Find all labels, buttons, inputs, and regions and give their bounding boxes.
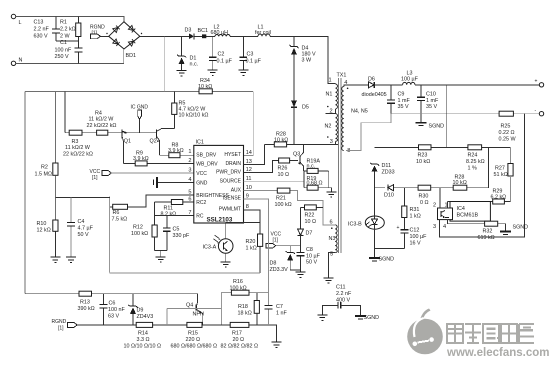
wire IC4 pin2 [439,188,441,208]
svg-text:IC3-B: IC3-B [348,222,362,228]
resistor R2 [35,91,59,177]
svg-text:100 kΩ: 100 kΩ [131,231,148,237]
resistor R31 [402,188,421,230]
svg-text:R1: R1 [60,20,67,26]
svg-text:5: 5 [188,189,191,195]
svg-text:22 kΩ/22 kΩ: 22 kΩ/22 kΩ [63,152,93,158]
svg-text:C3: C3 [247,52,254,58]
svg-text:C11: C11 [336,285,346,291]
svg-text:C12: C12 [410,228,420,234]
wire HYSET bus (y=91.3) [25,90,253,92]
resistor R5 [172,91,209,128]
svg-text:35 V: 35 V [426,104,437,110]
wire output sense drop [446,85,448,148]
svg-text:R12: R12 [133,225,143,231]
wire N3 pin5 to ground [329,252,336,277]
diode D6 [362,76,387,98]
svg-text:10 kΩ: 10 kΩ [416,159,430,165]
svg-text:6: 6 [188,197,191,203]
resistor R15 [171,322,218,349]
optocoupler IC4 BCM61B [433,202,490,231]
svg-text:4.7 µF: 4.7 µF [78,226,94,232]
transformer primary winding N2 [325,114,338,145]
resistor R9 [123,151,194,166]
svg-text:2: 2 [330,109,333,115]
wire pin9 ISENSE drop [244,199,269,293]
svg-text:16 V: 16 V [410,240,421,246]
svg-text:0.1 µF: 0.1 µF [217,59,233,65]
inductor L2 [211,25,231,37]
svg-text:R32: R32 [483,229,493,235]
svg-text:TX1: TX1 [337,73,347,79]
svg-text:N3: N3 [329,236,336,242]
capacitor C1 [55,40,83,63]
transistor Q4 [186,303,204,325]
capacitor C10 [417,85,439,123]
wire rectified rail [140,36,336,83]
svg-text:C7: C7 [276,304,283,310]
svg-text:R30: R30 [419,194,429,200]
resistor R12 [131,215,157,250]
node output terminal plus [535,79,544,88]
capacitor C13 [34,17,61,42]
ground under R12/C5 [156,257,166,262]
resistor R10 [37,198,59,257]
wire drain bus (y=144.4) [265,143,338,145]
zener D11 [370,163,395,188]
svg-text:C13: C13 [34,20,44,26]
resistor R23 [416,145,431,165]
resistor R18 [238,293,260,325]
svg-text:[1]: [1] [58,325,64,331]
wire pin4 to D6 [344,85,369,87]
svg-text:AUX: AUX [231,187,242,193]
resistor R11 8.2k [155,200,194,218]
resistor R20 1k [246,234,263,273]
optocoupler IC3-A phototransistor [203,235,234,253]
svg-text:100 kΩ: 100 kΩ [230,285,247,291]
svg-text:10 Ω: 10 Ω [278,172,290,178]
svg-text:51 kΩ: 51 kΩ [494,172,508,178]
inductor L1 [255,25,271,37]
svg-text:D9: D9 [137,308,144,314]
svg-text:D5: D5 [302,105,309,111]
svg-text:1 mF: 1 mF [398,98,411,104]
terminal IC GND [131,105,149,133]
terminal RGND [1] bottom [52,319,78,331]
node L input terminal [11,14,21,26]
wire C12/IC3-B bottom join [375,249,405,258]
wire feedback top line (y=147.3) [375,146,511,148]
svg-text:R24: R24 [468,153,478,159]
transformer TX1 core [337,73,347,254]
resistor R19A n.c. [304,159,329,188]
wire base line [65,132,157,134]
diode D10 [384,185,394,199]
transformer tap pin 2 [326,106,336,115]
wire R3R4 branch vertical [64,91,66,132]
capacitor C6 [99,294,125,325]
wire feedback mid line (y=187.7) [375,147,489,187]
svg-text:RC2: RC2 [196,200,206,206]
svg-text:0.25 W: 0.25 W [499,136,517,142]
wire pin8 PWMLMT [244,210,261,234]
svg-text:R29: R29 [493,188,503,194]
svg-text:D11: D11 [382,163,392,169]
svg-text:n.c.: n.c. [190,62,199,68]
resistor R22 [301,205,324,225]
svg-text:N4, N5: N4, N5 [351,109,368,115]
svg-text:3: 3 [188,168,191,174]
svg-text:+: + [535,79,538,85]
svg-text:D10: D10 [384,193,394,199]
svg-text:SOURCE: SOURCE [220,179,242,185]
svg-text:NPN: NPN [193,311,204,317]
svg-text:R21: R21 [276,196,286,202]
svg-text:R6: R6 [113,210,120,216]
svg-text:50 V: 50 V [78,232,89,238]
terminal VCC [1] left [90,169,194,181]
zener D4 [289,36,316,100]
svg-text:RGND: RGND [52,319,67,325]
ferrite bead BC1 [198,28,209,38]
ground SGND under R32 [500,225,528,235]
ground under N3 [324,278,334,283]
zener D9 [128,294,153,325]
svg-text:R27: R27 [495,166,505,172]
wire pin8 stair [346,114,391,151]
wire node drop to bottom rail [109,196,111,273]
svg-text:ZD4V3: ZD4V3 [137,314,154,320]
svg-text:D8: D8 [270,261,277,267]
wire RC node [155,202,194,215]
svg-text:+: + [397,225,400,231]
bridge rectifier BD1 [106,22,142,59]
svg-text:C5: C5 [173,227,180,233]
svg-text:R14: R14 [138,331,148,337]
resistor R16 [230,279,250,295]
svg-text:63 V: 63 V [108,314,119,320]
transistor Q2 [150,129,175,156]
transistor Q3 [293,144,304,171]
wire dim-detect top line (y=293.7) [25,294,198,304]
svg-text:3.3 Ω: 3.3 Ω [137,337,150,343]
svg-text:4: 4 [188,177,191,183]
capacitor C8 [297,246,321,272]
svg-text:PWR_DRV: PWR_DRV [216,169,242,175]
svg-text:SB_DRV: SB_DRV [196,153,217,159]
svg-text:3 W: 3 W [302,58,312,64]
svg-text:IC3-A: IC3-A [203,245,217,251]
svg-text:N: N [19,58,23,64]
resistor R25 [499,111,517,142]
wire R12/C5 bottom [155,251,167,257]
svg-text:1: 1 [188,149,191,155]
svg-text:SGND: SGND [379,257,395,263]
wire R10/C4 node [55,197,109,199]
wire C13/R1 bottom node [56,40,78,42]
capacitor C7 [264,293,287,325]
resistor R6 [110,195,194,223]
capacitor C4 [67,198,94,257]
resistor R3 [63,130,93,157]
resistor R8 [160,143,194,158]
resistor R19 [304,171,331,190]
svg-text:619 kΩ: 619 kΩ [478,235,495,241]
svg-text:IC4: IC4 [457,206,465,212]
resistor R32 [478,221,498,241]
svg-text:R25: R25 [501,124,511,130]
svg-text:1 mF: 1 mF [426,98,439,104]
svg-text:100 nF: 100 nF [55,48,72,54]
wire R16 line [221,292,268,294]
svg-text:10 kΩ/10 kΩ: 10 kΩ/10 kΩ [179,113,209,119]
ground SGND under IC3-B [369,257,394,263]
wire left outer vertical [24,91,26,293]
svg-text:1 kΩ: 1 kΩ [246,246,257,252]
svg-text:100 µF: 100 µF [401,77,419,83]
svg-text:R18: R18 [238,304,248,310]
svg-text:R31: R31 [410,207,420,213]
resistor R24 [466,145,485,172]
ground symbol pin4 GND [154,177,194,188]
svg-text:82 Ω/82 Ω/82 Ω: 82 Ω/82 Ω/82 Ω [221,344,259,350]
svg-text:630 V: 630 V [34,34,48,40]
svg-text:N2: N2 [325,124,332,130]
svg-text:20 Ω: 20 Ω [233,337,245,343]
svg-text:6: 6 [330,220,333,226]
node output terminal minus [535,108,544,116]
wire pin13 to drain bus [244,144,265,164]
svg-text:2: 2 [188,158,191,164]
svg-text:SGND: SGND [364,315,380,321]
svg-text:1 nF: 1 nF [276,311,287,317]
svg-text:R22: R22 [305,213,315,219]
svg-text:10 kΩ: 10 kΩ [274,137,288,143]
wire R29 line [448,201,511,203]
svg-text:7: 7 [188,210,191,216]
svg-text:BCM61B: BCM61B [457,213,479,219]
svg-text:C6: C6 [109,301,116,307]
terminal RGND [1] top [90,25,109,39]
svg-text:Q4: Q4 [186,303,193,309]
ground under IC3-A [221,253,231,267]
svg-text:400 V: 400 V [336,297,350,303]
svg-text:10 Ω/10 Ω/10 Ω: 10 Ω/10 Ω/10 Ω [124,344,162,350]
svg-text:330 pF: 330 pF [173,233,190,239]
zener D8 [270,246,301,273]
wire lower bias rail [110,272,260,274]
svg-text:100 kΩ: 100 kΩ [275,202,292,208]
svg-text:100 µF: 100 µF [410,234,428,240]
svg-text:1 kΩ: 1 kΩ [410,214,421,220]
svg-text:RC: RC [196,213,204,219]
svg-text:Q1: Q1 [124,139,131,145]
svg-text:R16: R16 [233,279,243,285]
svg-text:1: 1 [329,78,332,84]
svg-text:IC1: IC1 [196,140,204,146]
svg-text:SGND: SGND [513,225,529,231]
ground bottom right [272,342,282,347]
ground SGND under C10 [416,123,445,130]
svg-text:3.9 kΩ: 3.9 kΩ [168,148,184,154]
svg-text:Q3: Q3 [293,151,300,157]
svg-text:18 kΩ: 18 kΩ [238,311,252,317]
svg-text:2.2 nF: 2.2 nF [34,27,50,33]
svg-text:C8: C8 [306,247,313,253]
transformer aux winding N3 [329,220,338,258]
wire IC4 pin1 [447,202,449,209]
resistor R21 [275,188,292,208]
svg-text:fer coil: fer coil [255,30,271,36]
svg-text:3.9 kΩ: 3.9 kΩ [133,156,149,162]
svg-text:C2: C2 [218,52,225,58]
wire R16 branch vertical [220,293,222,325]
watermark logo traces [412,318,435,347]
svg-text:D6: D6 [368,76,375,82]
svg-text:6.2 kΩ: 6.2 kΩ [491,194,507,200]
svg-text:C1: C1 [60,40,67,46]
resistor R4 [87,111,117,136]
resistor R28 top [274,131,288,147]
ground SGND C11 right [355,315,379,321]
svg-text:R23: R23 [418,153,428,159]
svg-text:11 kΩ/2 W: 11 kΩ/2 W [89,117,115,123]
resistor R13 [78,291,95,312]
svg-text:22 kΩ/22 kΩ: 22 kΩ/22 kΩ [87,123,117,129]
resistor R28 right [453,174,467,190]
wire bridge-to-bus vertical [164,36,166,91]
svg-text:L: L [19,20,22,26]
ground under C8 [296,272,306,277]
svg-text:7.5 kΩ: 7.5 kΩ [112,217,128,223]
svg-text:HYSET: HYSET [224,152,241,158]
resistor R1 [60,17,81,42]
resistor R34 [198,78,212,94]
wire secondary return (y=113.7) [391,113,539,115]
svg-text:10 kΩ: 10 kΩ [198,84,212,90]
wire pin11 SOURCE [244,181,304,183]
svg-text:8.25 kΩ: 8.25 kΩ [466,159,485,165]
wire L rail [16,17,124,22]
svg-text:D3: D3 [185,28,192,34]
wire IC4 pin3 loop to output minus [440,114,525,237]
resistor R29 [491,188,507,204]
svg-text:11 kΩ/2 W: 11 kΩ/2 W [65,145,91,151]
svg-text:390 kΩ: 390 kΩ [78,306,95,312]
svg-text:250 V: 250 V [55,54,69,60]
svg-text:R26: R26 [278,166,288,172]
svg-text:2 W: 2 W [60,34,70,40]
capacitor C9 [387,85,410,114]
svg-text:BD1: BD1 [126,53,137,59]
svg-text:Q2: Q2 [150,139,157,145]
IC U1 SSL2103 [188,140,252,224]
svg-text:[1]: [1] [273,238,279,244]
svg-text:[1]: [1] [92,175,98,181]
inductor L3 [401,70,419,85]
svg-text:1.5 MΩ: 1.5 MΩ [35,172,53,178]
capacitor C5 [163,215,190,250]
svg-text:WB_DRV: WB_DRV [196,162,218,168]
svg-text:2.2 kΩ: 2.2 kΩ [60,27,76,33]
svg-text:C4: C4 [78,219,85,225]
svg-text:R15: R15 [188,331,198,337]
svg-text:R20: R20 [246,239,256,245]
svg-text:2.2 nF: 2.2 nF [336,291,352,297]
terminal VCC [1] right [266,232,301,249]
svg-text:SGND: SGND [429,123,445,129]
svg-text:DRAIN: DRAIN [225,161,241,167]
svg-text:8: 8 [246,204,249,210]
ground under R10 [50,257,60,262]
svg-text:diode0405: diode0405 [362,92,387,98]
svg-text:R2: R2 [41,165,48,171]
wire N2 to drain bus [335,141,337,144]
ground under R19 [326,188,336,198]
wire Q4 base line [167,308,221,325]
wire R2 to node [54,175,56,197]
svg-text:GND: GND [196,180,208,186]
svg-text:12 kΩ: 12 kΩ [37,228,51,234]
node N input terminal [11,58,22,66]
svg-text:R10: R10 [37,221,47,227]
wire bottom rail [77,325,276,342]
svg-text:0.1 µF: 0.1 µF [246,59,262,65]
diode D3 [185,28,194,40]
wire pin12 to gate [244,161,298,173]
resistor R27 [494,147,514,201]
resistor R14 [124,322,162,349]
svg-text:680 µH: 680 µH [211,30,229,36]
svg-text:3: 3 [433,224,436,230]
wire opto collector line [226,223,260,239]
svg-text:2: 2 [433,203,436,209]
wire HYSET drop to pin14 [244,91,254,155]
svg-text:0.22 Ω: 0.22 Ω [499,130,515,136]
svg-text:4: 4 [443,224,446,230]
svg-text:L3: L3 [407,70,413,76]
transformer secondary winding N4,N5 [342,80,368,154]
svg-text:ISENSE: ISENSE [223,196,242,202]
svg-text:0.68 Ω: 0.68 Ω [307,181,323,187]
transformer primary winding N1 [326,78,338,109]
wire IC4 pin4 / R32 line [448,220,506,232]
svg-text:220 Ω: 220 Ω [186,337,201,343]
svg-text:R13: R13 [80,300,90,306]
svg-text:VCC: VCC [196,171,207,177]
diode D5 [291,101,309,145]
svg-text:PWMLMT: PWMLMT [219,206,241,212]
capacitor C3 [238,36,261,75]
svg-text:10 µF: 10 µF [306,253,321,259]
svg-text:10 kΩ: 10 kΩ [453,180,467,186]
svg-text:100 nF: 100 nF [108,307,125,313]
svg-text:14: 14 [246,150,252,156]
svg-text:0 Ω: 0 Ω [420,200,429,206]
ground under C4 [66,257,76,262]
svg-text:3: 3 [330,139,333,145]
resistor R30 [418,185,431,206]
transistor Q1 [122,129,131,163]
svg-text:ZD33: ZD33 [382,169,395,175]
wire secondary output rail [374,84,539,86]
svg-text:N1: N1 [326,92,333,98]
watermark CJK text [447,324,534,343]
diode D7 [298,207,313,246]
svg-text:10 Ω: 10 Ω [305,219,317,225]
resistor R26 [278,158,290,178]
